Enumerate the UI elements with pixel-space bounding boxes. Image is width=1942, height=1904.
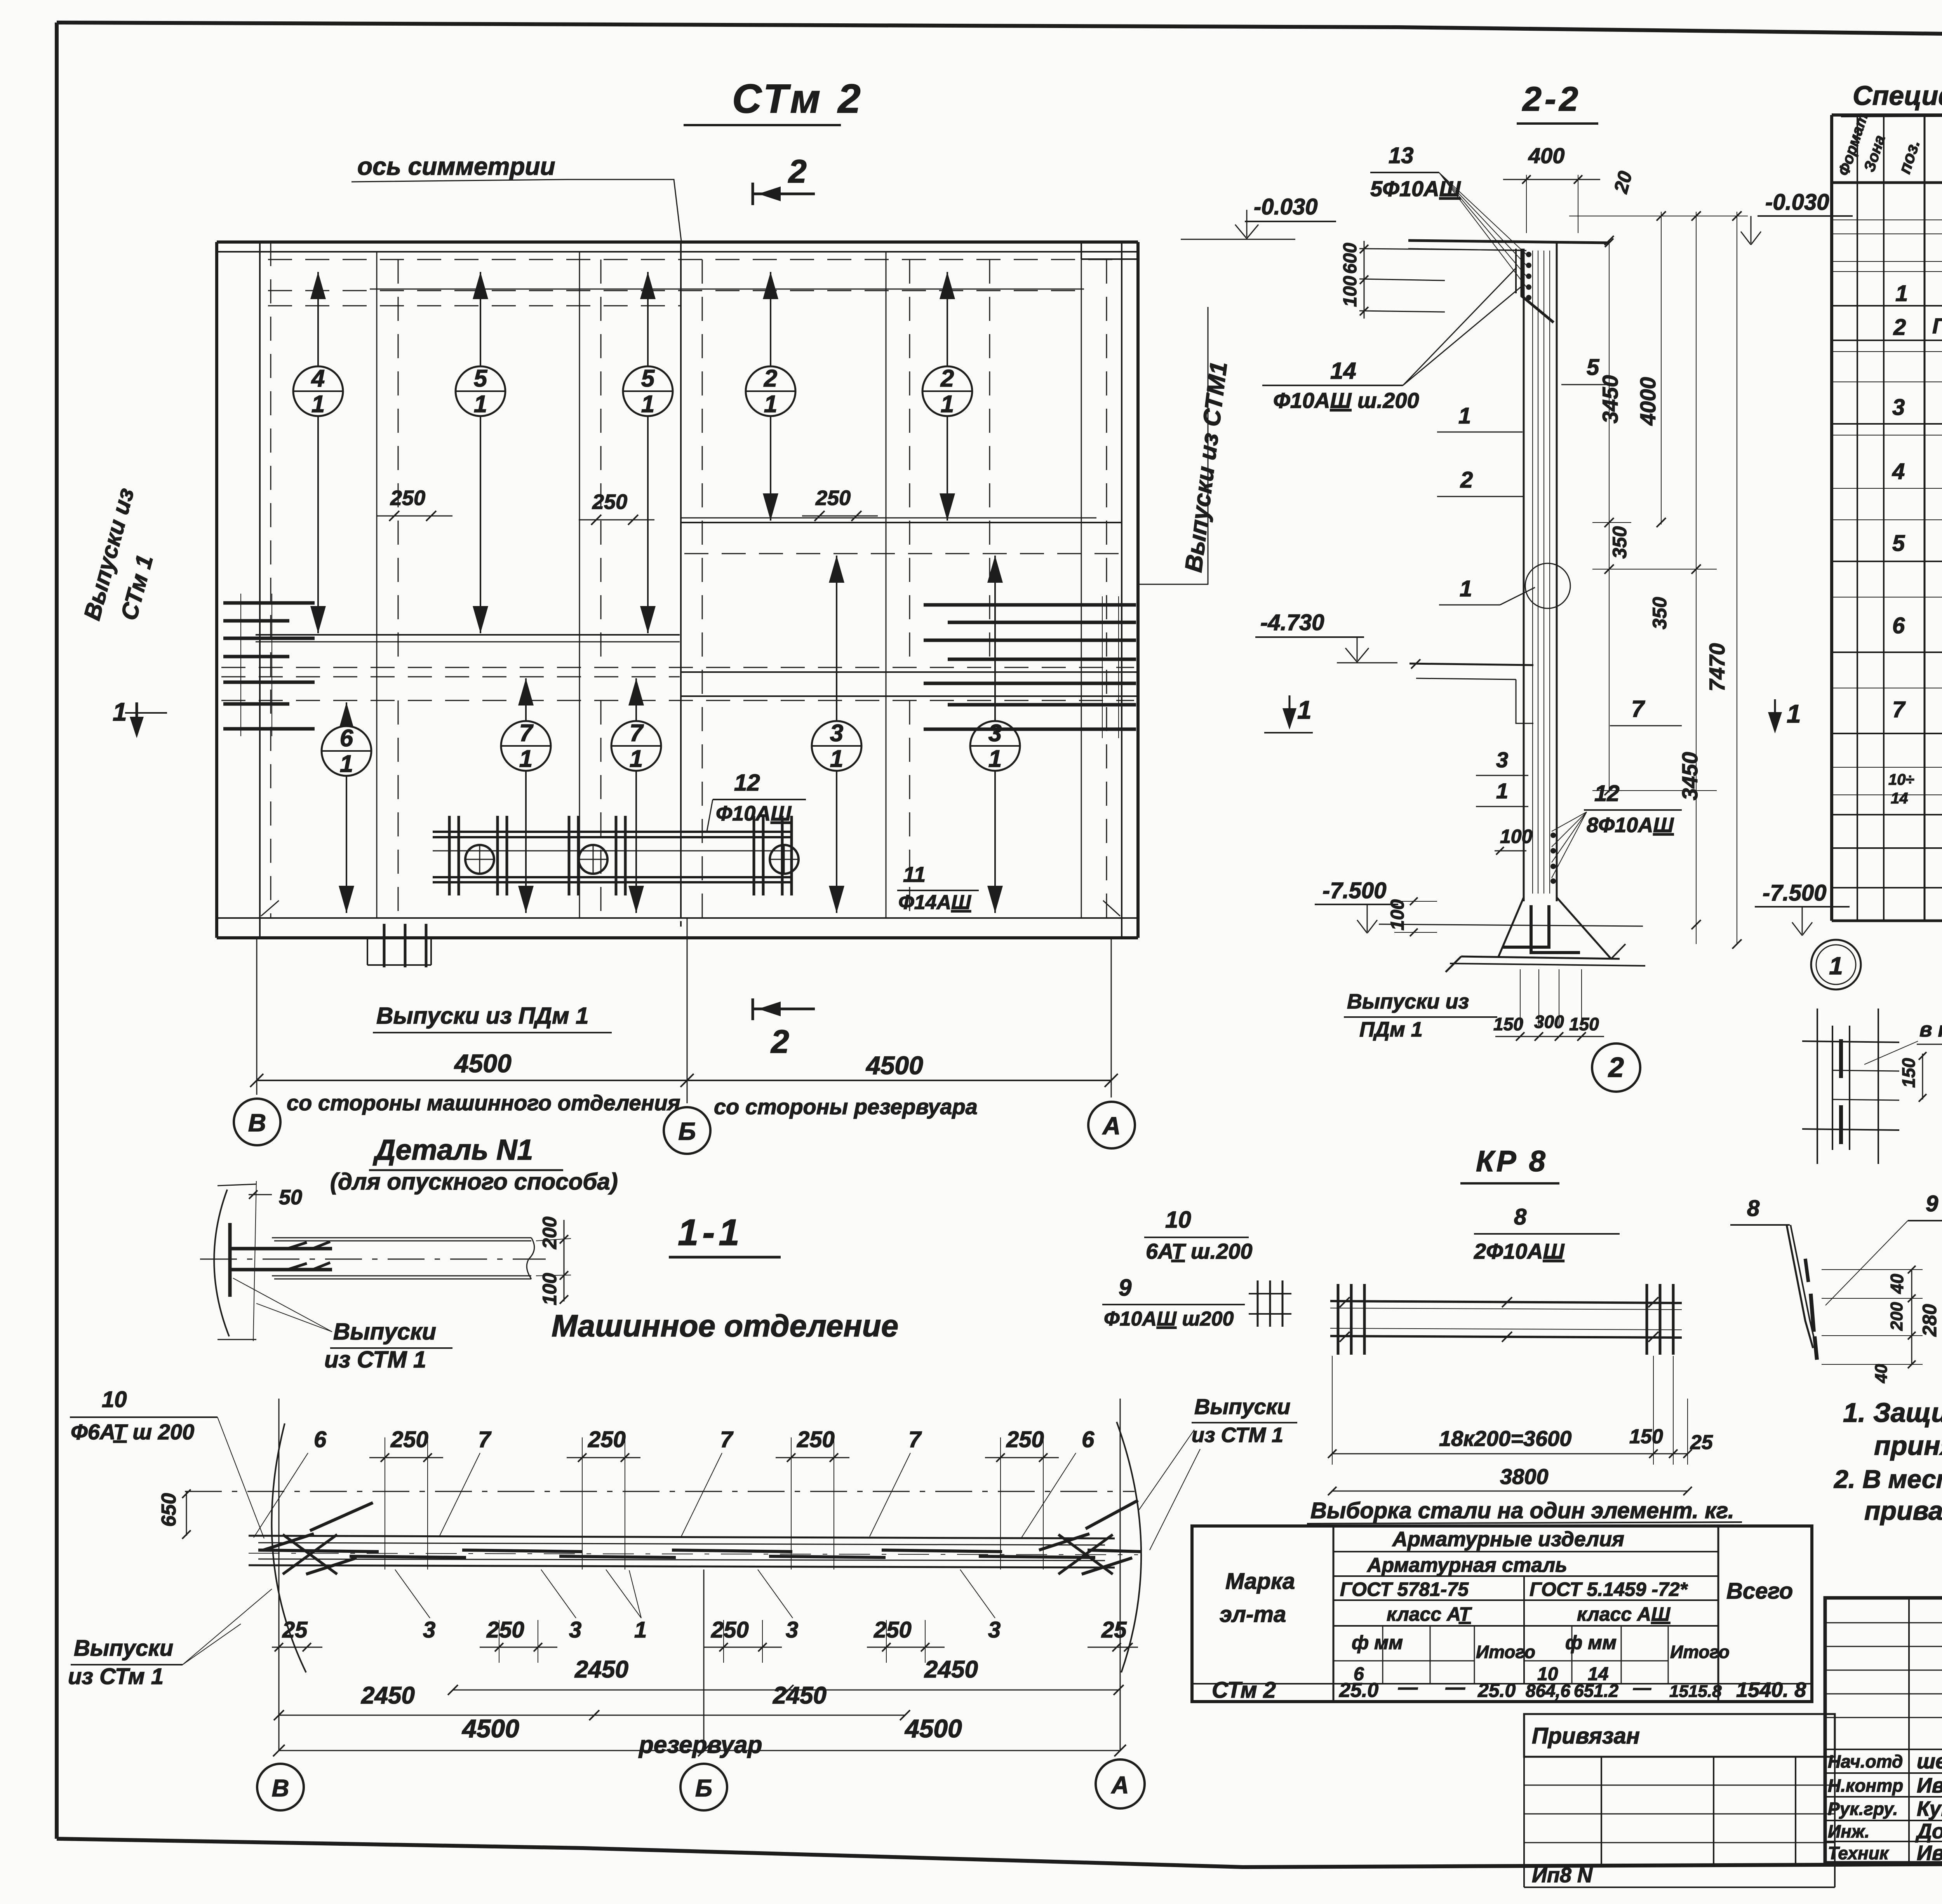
svg-text:со стороны машинного отделения: со стороны машинного отделения: [287, 1090, 680, 1115]
svg-text:Нач.отд: Нач.отд: [1828, 1751, 1903, 1772]
svg-text:принят 30мм.: принят 30мм.: [1874, 1430, 1942, 1461]
svg-text:3800: 3800: [1500, 1464, 1549, 1489]
svg-text:Выпуски: Выпуски: [1194, 1394, 1290, 1419]
svg-text:-4.730: -4.730: [1260, 610, 1324, 635]
svg-text:2450: 2450: [574, 1656, 628, 1683]
svg-text:эл-та: эл-та: [1220, 1602, 1286, 1627]
svg-text:18к200=3600: 18к200=3600: [1439, 1426, 1571, 1451]
svg-text:—: —: [1398, 1676, 1418, 1698]
svg-text:-0.030: -0.030: [1765, 190, 1829, 215]
svg-text:1: 1: [630, 746, 643, 772]
svg-text:Ф6АТ ш 200: Ф6АТ ш 200: [71, 1420, 194, 1444]
svg-text:—: —: [1445, 1676, 1465, 1698]
svg-text:150: 150: [1569, 1014, 1599, 1034]
svg-text:7: 7: [720, 1427, 734, 1452]
svg-text:250: 250: [486, 1617, 524, 1643]
svg-text:1515.8: 1515.8: [1669, 1682, 1722, 1701]
svg-text:(для опускного способа): (для опускного способа): [330, 1169, 618, 1195]
svg-text:250: 250: [1006, 1427, 1044, 1452]
svg-text:2: 2: [764, 365, 777, 392]
svg-text:1: 1: [1895, 281, 1908, 306]
svg-text:Привязан: Привязан: [1532, 1723, 1640, 1749]
svg-text:2: 2: [788, 153, 807, 190]
svg-text:40: 40: [1872, 1364, 1891, 1383]
svg-text:4: 4: [311, 365, 325, 392]
svg-text:100: 100: [1500, 826, 1533, 847]
svg-text:Арматурные изделия: Арматурные изделия: [1392, 1528, 1624, 1551]
svg-text:8: 8: [1747, 1196, 1760, 1221]
svg-text:Марка: Марка: [1225, 1569, 1295, 1594]
svg-text:1: 1: [641, 391, 654, 418]
svg-text:3: 3: [423, 1617, 435, 1643]
svg-text:7: 7: [478, 1427, 492, 1452]
svg-text:1: 1: [1460, 576, 1472, 601]
svg-text:Всего: Всего: [1726, 1578, 1793, 1604]
svg-text:2: 2: [1893, 315, 1906, 340]
svg-text:Арматурная сталь: Арматурная сталь: [1366, 1554, 1567, 1577]
svg-text:2450: 2450: [924, 1656, 978, 1683]
svg-text:250: 250: [588, 1427, 626, 1452]
svg-text:Инж.: Инж.: [1828, 1821, 1870, 1841]
svg-text:2450: 2450: [361, 1682, 415, 1709]
svg-text:250: 250: [390, 1427, 428, 1452]
svg-text:4000: 4000: [1636, 377, 1660, 426]
svg-text:100: 100: [1340, 276, 1361, 307]
svg-text:4: 4: [1892, 459, 1905, 484]
svg-text:12: 12: [1594, 781, 1620, 806]
svg-text:25.0: 25.0: [1477, 1679, 1516, 1701]
svg-text:5: 5: [1587, 355, 1599, 380]
svg-text:100: 100: [539, 1273, 560, 1305]
svg-text:250: 250: [815, 486, 851, 510]
svg-text:1: 1: [764, 391, 777, 418]
svg-text:3450: 3450: [1677, 752, 1702, 800]
svg-text:3: 3: [569, 1617, 581, 1643]
svg-text:12: 12: [734, 770, 760, 796]
svg-text:50: 50: [279, 1186, 302, 1209]
svg-text:4500: 4500: [865, 1051, 923, 1080]
svg-text:10: 10: [102, 1387, 127, 1412]
svg-text:280: 280: [1919, 1304, 1940, 1337]
svg-text:КР 8: КР 8: [1476, 1145, 1548, 1178]
svg-text:из СТм 1: из СТм 1: [68, 1664, 164, 1689]
svg-text:2Ф10АШ: 2Ф10АШ: [1474, 1239, 1565, 1263]
svg-text:150: 150: [1493, 1014, 1523, 1034]
svg-text:3450: 3450: [1598, 375, 1622, 423]
svg-text:ГОСТ 5.1459 -72*: ГОСТ 5.1459 -72*: [1530, 1578, 1688, 1600]
svg-text:Иванов: Иванов: [1917, 1774, 1942, 1797]
svg-text:Ф10АШ ш.200: Ф10АШ ш.200: [1273, 388, 1419, 413]
svg-text:9: 9: [1119, 1275, 1132, 1301]
svg-text:2-2: 2-2: [1522, 80, 1581, 118]
svg-text:Ип8 N: Ип8 N: [1532, 1864, 1593, 1887]
svg-text:40: 40: [1887, 1273, 1907, 1294]
svg-text:2. В местах отверстий арматуру: 2. В местах отверстий арматуру сеток выр…: [1833, 1465, 1942, 1493]
svg-text:Иволженко: Иволженко: [1917, 1841, 1942, 1865]
svg-text:Выпуски: Выпуски: [333, 1319, 436, 1345]
svg-text:250: 250: [797, 1427, 835, 1452]
svg-text:1-1: 1-1: [678, 1212, 743, 1253]
svg-text:1: 1: [1787, 699, 1801, 728]
svg-text:4500: 4500: [904, 1714, 962, 1743]
svg-text:-7.500: -7.500: [1763, 880, 1826, 906]
svg-text:Машинное отделение: Машинное отделение: [552, 1308, 898, 1343]
svg-text:5: 5: [474, 365, 488, 392]
svg-text:650: 650: [158, 1493, 180, 1527]
svg-text:1: 1: [634, 1617, 647, 1643]
svg-text:Б: Б: [695, 1775, 712, 1802]
svg-text:-0.030: -0.030: [1254, 194, 1317, 219]
svg-text:Итого: Итого: [1670, 1642, 1730, 1662]
svg-text:в нахлестку: в нахлестку: [1919, 1018, 1942, 1041]
svg-text:Выпуски: Выпуски: [74, 1636, 173, 1661]
svg-text:СТм 1: СТм 1: [116, 552, 158, 623]
svg-text:резервуар: резервуар: [638, 1732, 762, 1758]
svg-text:шейко: шейко: [1917, 1750, 1942, 1773]
svg-text:Деталь N1: Деталь N1: [372, 1134, 533, 1166]
svg-text:5: 5: [1892, 531, 1905, 556]
svg-text:25: 25: [1101, 1617, 1127, 1643]
svg-text:150: 150: [1629, 1425, 1663, 1448]
svg-text:250: 250: [390, 486, 425, 510]
svg-text:651.2: 651.2: [1574, 1681, 1619, 1701]
svg-text:Итого: Итого: [1476, 1642, 1535, 1662]
svg-text:А: А: [1111, 1772, 1129, 1799]
svg-text:ф мм: ф мм: [1352, 1632, 1403, 1653]
svg-text:Ф10АШ: Ф10АШ: [716, 802, 792, 825]
svg-text:300: 300: [1534, 1012, 1564, 1032]
svg-text:А: А: [1102, 1112, 1121, 1140]
svg-text:100: 100: [1387, 899, 1408, 930]
svg-text:13: 13: [1389, 143, 1414, 168]
svg-text:3: 3: [1892, 395, 1905, 420]
svg-text:ГОСТ 23279-78: ГОСТ 23279-78: [1932, 314, 1942, 338]
svg-text:7: 7: [1892, 697, 1906, 722]
svg-text:25: 25: [282, 1617, 308, 1643]
svg-text:25.0: 25.0: [1339, 1679, 1378, 1702]
svg-text:350: 350: [1649, 597, 1671, 629]
svg-text:Выпуски из: Выпуски из: [1347, 990, 1469, 1013]
svg-text:Выпуски из ПДм 1: Выпуски из ПДм 1: [376, 1003, 589, 1029]
svg-text:350: 350: [1609, 526, 1631, 559]
svg-text:1: 1: [988, 746, 1002, 772]
svg-text:7: 7: [519, 720, 534, 747]
svg-text:200: 200: [1887, 1302, 1906, 1331]
svg-text:В: В: [248, 1109, 266, 1137]
svg-text:из СТМ 1: из СТМ 1: [324, 1347, 426, 1373]
svg-text:7: 7: [1631, 696, 1645, 722]
svg-text:3: 3: [830, 720, 843, 747]
svg-text:7: 7: [630, 720, 644, 747]
svg-text:1540. 8: 1540. 8: [1736, 1678, 1806, 1702]
svg-text:6: 6: [314, 1427, 327, 1452]
svg-text:2: 2: [770, 1023, 789, 1060]
svg-text:Ф14АШ: Ф14АШ: [898, 891, 971, 914]
svg-text:1: 1: [1829, 952, 1843, 980]
svg-text:2: 2: [1608, 1052, 1624, 1083]
svg-text:1. Защитный слой бетона для р: 1. Защитный слой бетона для рабочей арма…: [1843, 1397, 1942, 1428]
svg-text:1: 1: [941, 391, 954, 418]
svg-text:3: 3: [1496, 747, 1508, 772]
svg-text:Кунцевич: Кунцевич: [1917, 1797, 1942, 1820]
svg-text:класс АШ: класс АШ: [1577, 1603, 1671, 1625]
svg-text:6АТ ш.200: 6АТ ш.200: [1146, 1239, 1253, 1263]
svg-text:2: 2: [1460, 467, 1473, 493]
svg-text:400: 400: [1528, 143, 1564, 168]
svg-text:—: —: [1633, 1678, 1651, 1698]
svg-text:-7.500: -7.500: [1323, 878, 1386, 903]
svg-text:14: 14: [1891, 790, 1908, 807]
svg-text:Спецификация элементов монол: Спецификация элементов монолитной констр…: [1853, 80, 1942, 111]
svg-text:1: 1: [1496, 779, 1508, 803]
svg-text:1: 1: [519, 746, 532, 772]
svg-text:3: 3: [988, 720, 1002, 747]
svg-text:со стороны резервуара: со стороны резервуара: [714, 1094, 978, 1119]
svg-text:Выпуски из СТМ1: Выпуски из СТМ1: [1180, 360, 1232, 573]
svg-text:2450: 2450: [773, 1682, 827, 1709]
svg-text:864,6: 864,6: [1526, 1681, 1571, 1701]
svg-text:8: 8: [1514, 1204, 1527, 1230]
svg-text:3: 3: [786, 1617, 798, 1643]
svg-text:поз.: поз.: [1895, 138, 1924, 176]
svg-text:11: 11: [903, 862, 926, 887]
svg-text:Доценко: Доценко: [1915, 1820, 1942, 1843]
svg-text:7470: 7470: [1705, 643, 1729, 692]
svg-text:СТм 2: СТм 2: [732, 76, 864, 122]
svg-text:СТм 2: СТм 2: [1212, 1678, 1276, 1703]
svg-text:ПДм 1: ПДм 1: [1359, 1018, 1423, 1041]
svg-text:1: 1: [340, 751, 353, 777]
svg-text:1: 1: [311, 391, 325, 418]
svg-text:8Ф10АШ: 8Ф10АШ: [1587, 814, 1674, 837]
svg-text:Ф10АШ ш200: Ф10АШ ш200: [1104, 1308, 1234, 1330]
svg-text:10: 10: [1165, 1207, 1191, 1233]
svg-text:14: 14: [1330, 358, 1356, 384]
svg-text:класс АТ: класс АТ: [1387, 1603, 1472, 1625]
svg-text:Техник: Техник: [1828, 1843, 1890, 1863]
svg-text:1: 1: [474, 391, 487, 418]
svg-text:приварить к корпусам сальни: приварить к корпусам сальников.: [1864, 1496, 1942, 1526]
svg-text:Б: Б: [678, 1117, 696, 1145]
svg-text:250: 250: [711, 1617, 749, 1643]
svg-text:6: 6: [340, 725, 353, 752]
svg-text:из СТМ 1: из СТМ 1: [1192, 1423, 1283, 1447]
svg-text:ось симметрии: ось симметрии: [357, 152, 555, 180]
svg-text:150: 150: [1898, 1058, 1919, 1088]
svg-text:200: 200: [539, 1216, 560, 1249]
svg-text:6: 6: [1082, 1427, 1095, 1452]
svg-text:5: 5: [641, 365, 655, 392]
svg-text:10÷: 10÷: [1888, 771, 1914, 788]
svg-text:ГОСТ 5781-75: ГОСТ 5781-75: [1340, 1578, 1469, 1600]
svg-text:3: 3: [988, 1617, 1001, 1643]
svg-text:ф мм: ф мм: [1565, 1632, 1617, 1653]
svg-text:4500: 4500: [454, 1049, 512, 1078]
svg-text:250: 250: [592, 490, 627, 514]
svg-text:6: 6: [1892, 613, 1905, 638]
svg-text:9: 9: [1926, 1191, 1938, 1216]
svg-text:Рук.гру.: Рук.гру.: [1828, 1799, 1898, 1819]
svg-text:25: 25: [1690, 1431, 1713, 1454]
svg-text:2: 2: [940, 365, 954, 392]
svg-text:Н.контр: Н.контр: [1828, 1775, 1903, 1796]
svg-text:4500: 4500: [461, 1714, 519, 1743]
svg-text:250: 250: [874, 1617, 912, 1643]
svg-text:1: 1: [830, 746, 843, 772]
svg-text:20: 20: [1610, 169, 1636, 195]
svg-text:7: 7: [908, 1427, 922, 1452]
svg-text:1: 1: [1458, 403, 1471, 429]
svg-text:1: 1: [113, 697, 127, 726]
svg-text:1: 1: [1297, 695, 1312, 724]
svg-text:В: В: [272, 1775, 289, 1802]
svg-text:Выборка стали на один элемент.: Выборка стали на один элемент. кг.: [1310, 1498, 1734, 1523]
svg-text:600: 600: [1340, 243, 1361, 274]
